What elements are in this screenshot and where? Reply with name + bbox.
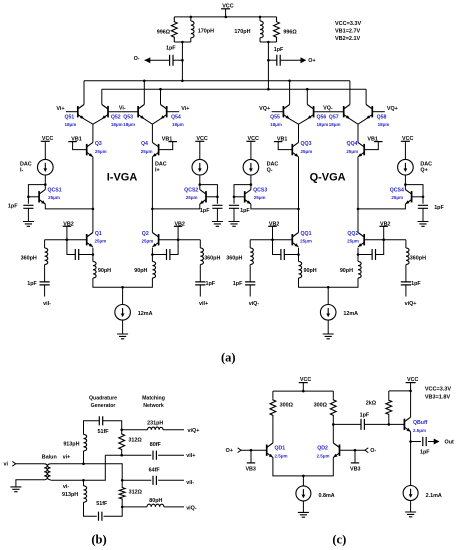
svg-text:1pF: 1pF [206, 281, 216, 287]
junction tail [121, 286, 124, 289]
wire cap to emitter left [284, 254, 298, 256]
junction QCS2 emitter tap [151, 208, 154, 211]
wire tail to source [327, 287, 329, 304]
wire Q52 Q53 bases [108, 111, 138, 113]
wire Q51 base [66, 111, 78, 113]
wire VCC to source [44, 141, 46, 159]
wire 312ohm upper bottom stub [121, 451, 123, 456]
capacitor 1pF QCS2 [212, 205, 222, 208]
wire row2 left [105, 454, 151, 456]
junction QCS1 base [27, 196, 30, 199]
svg-text:Q55: Q55 [270, 114, 280, 120]
wire O- cap to node [173, 59, 182, 61]
svg-text:170pH: 170pH [234, 29, 250, 35]
junction QCS4 emitter tap [357, 208, 360, 211]
wire vi+ net [51, 464, 123, 481]
wire O+ to QD1 base [241, 449, 267, 451]
wire row3 left [122, 479, 151, 481]
wire inductor top stub [190, 17, 192, 21]
wire 300ohm to QD1 collector [272, 417, 274, 444]
svg-text:Vi+: Vi+ [181, 106, 189, 112]
svg-text:(b): (b) [91, 532, 106, 546]
inductor 170pH left tank [191, 21, 194, 38]
wire VB2 left to cap [273, 226, 281, 254]
svg-text:2kΩ: 2kΩ [366, 401, 377, 407]
transistor Q52 [102, 105, 108, 119]
svg-text:Q4: Q4 [141, 141, 148, 147]
wire collector drop rail1 [143, 81, 145, 105]
svg-text:Balun: Balun [42, 454, 57, 460]
transistor Q57 [344, 105, 350, 119]
svg-text:2.5μm: 2.5μm [413, 428, 426, 433]
wire QCS1 cap to ground [27, 208, 29, 221]
transistor Q54 [161, 105, 167, 119]
wire QCS1 diode connection [28, 185, 45, 204]
capacitor 1pF QCS1 [23, 205, 33, 208]
svg-text:25μm: 25μm [347, 239, 359, 244]
svg-text:18μm: 18μm [65, 122, 77, 127]
svg-text:Q+: Q+ [420, 167, 427, 173]
resistor 300ohm left [270, 399, 276, 417]
ground balun [10, 487, 21, 492]
wire VB1 to Q4 base [159, 142, 173, 150]
VCC supply QCS1 [41, 136, 54, 142]
wire O- to QD2 base [340, 449, 365, 451]
inductor 360pH left [250, 248, 253, 265]
svg-text:Q-VGA: Q-VGA [310, 171, 346, 183]
junction viI- node [121, 479, 124, 482]
junction O- tap [181, 59, 184, 62]
wire VCC stub c left [302, 383, 304, 392]
inductor 913pH lower [84, 486, 87, 503]
svg-text:Q52: Q52 [111, 114, 121, 120]
wire VB1 to QQ4 base [364, 142, 378, 150]
junction Out tap [409, 440, 412, 443]
tick VB2 right [174, 225, 183, 227]
svg-text:viI+: viI+ [199, 301, 208, 307]
svg-text:Generator: Generator [91, 403, 116, 409]
wire 360pH to cap left [249, 265, 251, 282]
wire row3 out [158, 479, 184, 481]
wire to Out cap [411, 441, 421, 443]
svg-text:viI-: viI- [186, 480, 194, 486]
wire 2.1mA to ground [410, 501, 412, 513]
VCC supply part c left [299, 377, 312, 383]
ground QCS3 [229, 222, 240, 227]
svg-text:QCS3: QCS3 [253, 187, 267, 193]
inductor 360pH left [45, 248, 48, 265]
wire VCC stub c right [410, 383, 412, 391]
wire upper branch right [103, 421, 122, 430]
svg-text:Q58: Q58 [377, 114, 387, 120]
wire QCS3 diode connection [234, 185, 251, 204]
wire QQ1 emitter stub [298, 248, 300, 262]
svg-text:VB1=2.7V: VB1=2.7V [335, 28, 361, 34]
svg-text:90pH: 90pH [304, 268, 317, 274]
wire QCS4 diode connection [405, 185, 423, 204]
svg-text:1pF: 1pF [420, 450, 430, 456]
inductor 80pH [147, 504, 164, 507]
wire collector drop rail1 [289, 81, 291, 105]
wire row4 out [164, 506, 184, 508]
VCC supply QCS4 [401, 136, 414, 142]
transistor QQ2 [358, 233, 364, 247]
svg-text:Matching: Matching [142, 396, 165, 402]
junction emitter left [92, 253, 95, 256]
wire collector drop rail2 [160, 89, 162, 104]
wire QCS4 emitter [358, 204, 405, 209]
svg-text:1pF: 1pF [8, 204, 18, 210]
wire inductor bottom stub [259, 38, 261, 42]
current source DAC I+ [192, 159, 208, 175]
svg-text:2.5μm: 2.5μm [275, 454, 288, 459]
svg-text:1pF: 1pF [233, 281, 243, 287]
svg-text:0.8mA: 0.8mA [319, 493, 335, 499]
svg-text:(c): (c) [332, 532, 346, 546]
wire Q55 base [272, 111, 284, 113]
svg-text:Q53: Q53 [123, 114, 133, 120]
transistor Q58 [366, 105, 372, 119]
svg-text:996Ω: 996Ω [157, 29, 171, 35]
svg-text:QD2: QD2 [317, 445, 328, 451]
capacitor 1pF QCS4 [418, 205, 428, 208]
svg-text:QQ3: QQ3 [301, 141, 312, 147]
svg-text:18μm: 18μm [329, 122, 341, 127]
junction right tank bottom [267, 41, 270, 44]
junction emitter right [357, 253, 360, 256]
wire input stub right [199, 285, 201, 297]
junction rail2 Q54 collector [159, 88, 162, 91]
wire cap to emitter right [358, 254, 372, 256]
tick VB1 Q3 [68, 141, 77, 143]
junction QCS4 base [422, 196, 425, 199]
capacitor 1pF O+ [277, 55, 280, 66]
inductor 90pH right [358, 262, 361, 279]
svg-text:25μm: 25μm [142, 239, 154, 244]
svg-text:25μm: 25μm [346, 149, 358, 154]
svg-text:25μm: 25μm [391, 195, 403, 200]
svg-text:VB3: VB3 [245, 467, 256, 473]
wire row4 to 80pH [122, 506, 147, 508]
wire VB2 right to cap [170, 226, 178, 254]
svg-text:Q57: Q57 [329, 114, 339, 120]
wire vi- net [51, 455, 106, 480]
wire row1 out [163, 429, 184, 431]
svg-text:913pH: 913pH [63, 442, 79, 448]
tick VB2 left [63, 225, 71, 227]
svg-text:90pH: 90pH [98, 268, 111, 274]
wire 300ohm right top stub [332, 391, 334, 399]
wire output rail 2 [102, 88, 366, 90]
transistor Q56 [307, 105, 313, 119]
svg-text:(a): (a) [221, 351, 236, 365]
svg-text:25μm: 25μm [95, 149, 107, 154]
wire input stub left [44, 285, 46, 297]
junction QCS2 base [216, 196, 219, 199]
wire collector drop rail2 [101, 89, 103, 104]
junction rail1 Q53 collector [143, 80, 146, 83]
svg-text:25μm: 25μm [300, 239, 312, 244]
wire QCS3 base [234, 196, 245, 198]
svg-text:51fF: 51fF [97, 429, 109, 435]
junction right tank on rail2 [267, 88, 270, 91]
svg-text:80pH: 80pH [149, 498, 162, 504]
svg-text:VCC=3.3V: VCC=3.3V [335, 21, 361, 27]
transistor Q1 [87, 233, 93, 247]
svg-text:12mA: 12mA [138, 311, 153, 317]
wire 913pH lower top stub [83, 480, 85, 486]
wire O- lead [145, 59, 170, 61]
ground QCS1 [23, 222, 34, 227]
capacitor 64fF [153, 476, 156, 485]
wire rail c right [389, 390, 411, 392]
svg-text:viQ+: viQ+ [188, 428, 200, 434]
junction tail [327, 286, 330, 289]
svg-text:Network: Network [143, 403, 164, 409]
wire QQ2 emitter stub [357, 248, 359, 262]
inductor 231pH [148, 427, 164, 430]
svg-text:I-VGA: I-VGA [107, 171, 138, 183]
wire to Q4 collector [151, 124, 153, 142]
wire 360pH top stub left [249, 240, 251, 248]
ground tail [323, 334, 334, 339]
capacitor 1pF O- [170, 55, 173, 66]
inductor 913pH upper [84, 434, 87, 451]
wire source to QCS1 collector [44, 175, 46, 190]
junction vi+ 913pH [82, 463, 85, 466]
wire source to ground [327, 320, 329, 334]
wire Q1 emitter stub [92, 248, 94, 262]
tick VB3 right [351, 462, 359, 464]
svg-text:vi-: vi- [63, 484, 69, 490]
wire left tank to rail [181, 42, 183, 81]
inductor 90pH left [299, 262, 302, 279]
wire left tank bottom bar [174, 41, 191, 43]
capacitor 1pF QCS3 [229, 205, 239, 208]
junction VB2 right [177, 238, 180, 241]
junction VB2 left [271, 238, 274, 241]
junction left tank on rail1 [181, 80, 184, 83]
wire QQ2 base to input network [364, 239, 406, 241]
wire QCS4 base [412, 196, 423, 198]
junction QBuff collector rail [409, 390, 412, 393]
capacitor 1pF input right [401, 282, 411, 285]
svg-text:I+: I+ [155, 167, 160, 173]
junction rail2 Q56 collector [306, 88, 309, 91]
capacitor degeneration left [75, 249, 78, 260]
tick VB3 left [247, 462, 255, 464]
wire 360pH top stub right [199, 240, 201, 248]
junction viQ- node [121, 506, 124, 509]
current source 2.1mA [403, 486, 418, 501]
inductor balun primary [44, 464, 47, 480]
current source 12mA [320, 305, 336, 321]
wire collector drop rail1 [83, 81, 85, 105]
svg-text:vi: vi [4, 462, 9, 468]
wire tail join [299, 278, 359, 287]
junction viQ+ node [120, 429, 123, 432]
svg-text:25μm: 25μm [301, 149, 313, 154]
bar VCC part c right [406, 382, 416, 384]
wire QBuff emitter down [410, 432, 412, 486]
wire VCC to source [199, 141, 201, 159]
junction QD2 collector node [332, 423, 335, 426]
svg-text:Q54: Q54 [171, 114, 181, 120]
inductor 90pH right [152, 262, 155, 279]
inductor balun secondary [47, 464, 50, 480]
wire to QQ4 collector [357, 124, 359, 142]
junction emitter right [151, 253, 154, 256]
resistor 996ohm left tank [171, 17, 177, 42]
wire QCS1 base [28, 196, 39, 198]
wire VB2 left to cap [67, 226, 75, 254]
wire 360pH top stub right [405, 240, 407, 248]
svg-text:1pF: 1pF [27, 281, 37, 287]
transistor QQ1 [292, 233, 298, 247]
wire 360pH to cap right [405, 265, 407, 282]
arrow O+ output [301, 57, 307, 63]
junction O+ tap [267, 59, 270, 62]
svg-text:Vi+: Vi+ [56, 106, 64, 112]
ground 0.8mA [298, 512, 309, 517]
capacitor degeneration right [167, 249, 170, 260]
capacitor 1pF input right [195, 282, 205, 285]
junction QCS4 diode loop [404, 183, 407, 186]
junction VCC tap [225, 16, 228, 19]
wire O+ lead [280, 59, 301, 61]
junction 2k base node [388, 423, 391, 426]
wire to Q3 collector [92, 124, 94, 142]
svg-text:QCS2: QCS2 [184, 187, 198, 193]
svg-text:DAC: DAC [155, 161, 167, 167]
capacitor degeneration right [372, 249, 375, 260]
svg-text:Q-: Q- [267, 167, 273, 173]
svg-text:1pF: 1pF [240, 208, 250, 214]
wire collector drop rail1 [349, 81, 351, 105]
wire Q2 emitter stub [151, 248, 153, 262]
wire lower branch left [84, 502, 97, 516]
wire VB3 stub left [250, 450, 252, 463]
wire source to QCS3 collector [250, 175, 252, 190]
transistor QQ3 [292, 142, 298, 156]
junction viI+ node [120, 454, 123, 457]
wire VB3 stub right [354, 450, 356, 463]
transistor QCS1 [39, 190, 45, 204]
svg-text:VQ+: VQ+ [387, 106, 398, 112]
tick VB2 right [379, 225, 388, 227]
wire cap to emitter left [79, 254, 93, 256]
current source DAC Q+ [398, 159, 414, 175]
ground tail [117, 334, 128, 339]
transistor QBuff [404, 417, 410, 431]
svg-text:viQ+: viQ+ [405, 301, 417, 307]
svg-text:VQ-: VQ- [323, 106, 333, 112]
transistor QCS4 [405, 190, 411, 204]
svg-text:viQ-: viQ- [249, 301, 260, 307]
svg-text:Vi-: Vi- [119, 106, 126, 112]
junction top rail left tank [190, 16, 193, 19]
wire 1pF to QBuff base [364, 423, 404, 425]
wire emitter join right pair [144, 119, 160, 124]
wire row2 out [158, 454, 184, 456]
svg-text:QQ1: QQ1 [301, 231, 312, 237]
wire QQ1 base to input network [250, 239, 292, 241]
svg-text:360pH: 360pH [204, 256, 220, 262]
wire cap to emitter right [152, 254, 166, 256]
svg-text:25μm: 25μm [254, 195, 266, 200]
wire 360pH to cap right [199, 265, 201, 282]
svg-text:18μm: 18μm [270, 122, 282, 127]
resistor 2kohm [386, 399, 392, 415]
svg-text:1pF: 1pF [360, 413, 370, 419]
svg-text:996Ω: 996Ω [283, 29, 297, 35]
svg-text:DAC: DAC [420, 161, 432, 167]
junction VB2 left [66, 238, 69, 241]
wire tail to source [122, 287, 124, 304]
ground 2.1mA [405, 512, 416, 517]
resistor 996ohm right tank [274, 17, 280, 42]
wire Q1 base to input network [45, 239, 87, 241]
current source DAC I- [38, 159, 54, 175]
capacitor 51fF lower [99, 512, 102, 521]
wire VB2 right to cap [376, 226, 384, 254]
svg-text:Q51: Q51 [65, 114, 75, 120]
wire Q56 Q57 bases [314, 111, 344, 113]
svg-text:I-: I- [20, 167, 23, 173]
junction VB2 right [382, 238, 385, 241]
svg-text:12mA: 12mA [343, 311, 358, 317]
capacitor 51fF upper [99, 416, 102, 425]
transistor Q53 [138, 105, 144, 119]
wire tail join [93, 278, 152, 287]
wire Q3 emitter to Q1 collector [92, 157, 94, 233]
capacitor 1pF coupling [361, 419, 364, 430]
svg-text:Q3: Q3 [95, 141, 102, 147]
wire VB1 to Q3 base [73, 142, 87, 150]
wire source to ground [122, 320, 124, 334]
svg-text:O+: O+ [308, 58, 315, 64]
wire VCC to source [250, 141, 252, 159]
wire 300ohm left top stub [272, 391, 274, 399]
svg-text:1pF: 1pF [411, 281, 421, 287]
svg-text:Q1: Q1 [95, 231, 102, 237]
wire inductor bottom stub [190, 38, 192, 42]
wire source to QCS4 collector [404, 175, 406, 190]
junction vi- 913pH [82, 479, 85, 482]
svg-text:viQ-: viQ- [186, 505, 197, 511]
svg-text:1pF: 1pF [166, 46, 176, 52]
svg-text:Out: Out [445, 440, 454, 446]
wire emitter join left pair [290, 119, 308, 124]
transistor Q55 [283, 105, 289, 119]
transistor Q51 [78, 105, 84, 119]
wire QCS1 emitter [45, 204, 93, 209]
svg-text:QQ2: QQ2 [347, 231, 358, 237]
capacitor 1pF input left [245, 282, 255, 285]
wire Q58 base [372, 111, 385, 113]
wire Out lead [428, 441, 434, 443]
wire node to O+ cap [268, 59, 276, 61]
wire QCS3 emitter [251, 204, 299, 209]
tick VB1 QQ3 [274, 141, 283, 143]
svg-text:QCS1: QCS1 [48, 187, 62, 193]
svg-text:VB3: VB3 [350, 467, 361, 473]
svg-text:300Ω: 300Ω [314, 403, 328, 409]
wire emitter join left pair [84, 119, 102, 124]
svg-text:O+: O+ [226, 448, 233, 454]
capacitor 80fF [153, 451, 156, 460]
resistor 312ohm upper [119, 433, 125, 451]
